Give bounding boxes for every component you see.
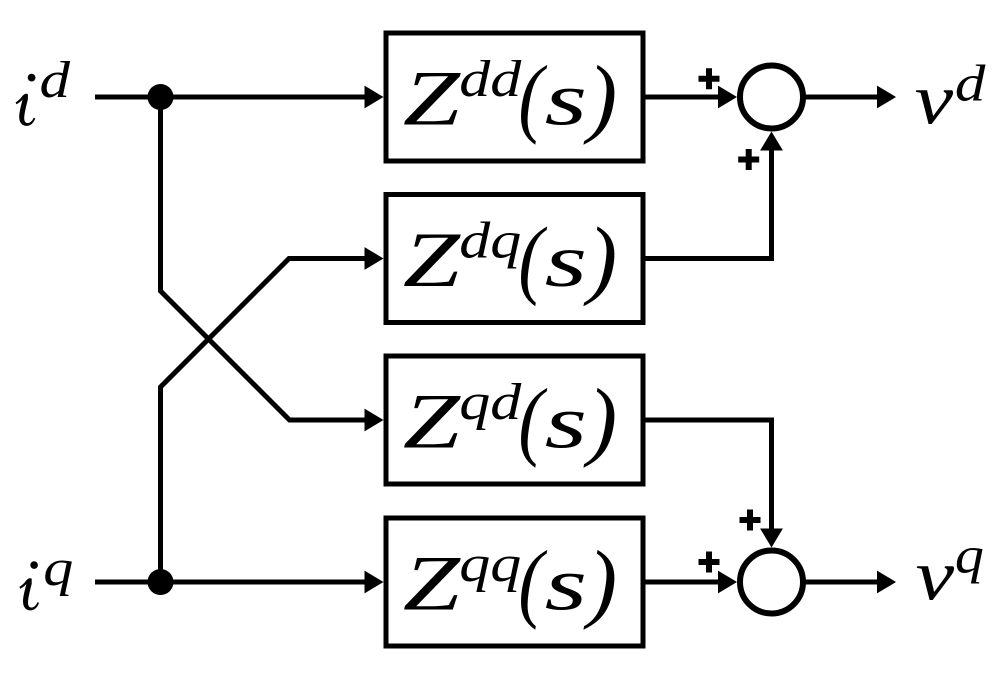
- svg-text:v: v: [916, 536, 955, 616]
- input label i^d: [16, 52, 72, 126]
- svg-text:): ): [583, 372, 618, 469]
- svg-text:): ): [583, 211, 618, 308]
- svg-text:q: q: [43, 540, 73, 597]
- plus sign at Zdd input of summing junction 1: [699, 68, 720, 89]
- block Zqd(s): [386, 356, 643, 484]
- plus sign at Zqd input of summing junction 2: [740, 510, 761, 531]
- svg-text:s: s: [545, 220, 588, 303]
- svg-text:s: s: [545, 59, 588, 142]
- wire: i^q junction up, diagonal crossover to Zdq block: [161, 247, 384, 582]
- plus sign at Zqq input of summing junction 2: [699, 552, 720, 573]
- wire: i^d input to Zdd block: [95, 86, 384, 109]
- svg-text:q: q: [955, 528, 984, 585]
- svg-text:Z: Z: [403, 216, 462, 303]
- block Zqq(s): [386, 518, 643, 646]
- wire: summing junction 1 to v^d output: [804, 86, 896, 109]
- svg-text:(: (: [518, 372, 547, 469]
- svg-text:dq: dq: [459, 213, 521, 270]
- block Zdd(s): [386, 33, 643, 161]
- svg-text:s: s: [545, 382, 588, 465]
- svg-text:Z: Z: [403, 377, 462, 464]
- svg-text:): ): [583, 49, 618, 146]
- output label v^d: [915, 56, 987, 140]
- wire: summing junction 2 to v^q output: [804, 571, 896, 594]
- svg-text:s: s: [545, 544, 588, 627]
- svg-text:Z: Z: [403, 54, 462, 141]
- svg-text:qq: qq: [459, 536, 521, 593]
- plus sign at Zdq input of summing junction 1: [738, 149, 759, 170]
- svg-text:v: v: [915, 60, 954, 140]
- node: i^q junction dot: [148, 569, 174, 595]
- svg-text:d: d: [955, 56, 987, 113]
- block Zdq(s): [386, 195, 643, 323]
- wire: i^d junction down, diagonal crossover to Zqd block: [161, 97, 384, 431]
- svg-text:(: (: [518, 534, 547, 631]
- output label v^q: [916, 528, 984, 616]
- svg-text:Z: Z: [403, 539, 462, 626]
- svg-text:qd: qd: [459, 374, 522, 431]
- wire: Zdq output up to summing junction 1: [643, 132, 783, 259]
- svg-text:): ): [583, 534, 618, 631]
- wire: i^q input to Zqq block: [95, 571, 384, 594]
- wire: Zdd output to summing junction 1: [643, 86, 737, 109]
- svg-text:dd: dd: [459, 51, 522, 108]
- svg-text:(: (: [518, 211, 547, 308]
- node: i^d junction dot: [148, 84, 174, 110]
- svg-text:(: (: [518, 49, 547, 146]
- svg-text:d: d: [40, 52, 72, 109]
- wire: Zqq output to summing junction 2: [643, 571, 737, 594]
- summing junction 1: [740, 66, 803, 129]
- input label i^q: [19, 540, 73, 610]
- wire: Zqd output down to summing junction 2: [643, 420, 783, 548]
- summing junction 2: [740, 551, 803, 614]
